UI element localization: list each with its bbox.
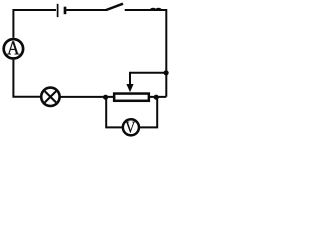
lamp L1 circle — [41, 88, 59, 106]
lamp L1 cross — [45, 91, 56, 102]
wire voltmeter right branch: from voltmeter right up to right junction — [140, 98, 158, 127]
voltmeter V1 letter V — [125, 122, 135, 133]
junction dot right of rheostat — [154, 95, 159, 100]
wire lamp to rheostat left terminal — [60, 96, 114, 98]
wire left side below ammeter down to bottom-left corner and right to lamp — [13, 60, 41, 97]
voltmeter V1 circle — [123, 119, 139, 135]
battery B1 short thick plate — [64, 7, 67, 15]
ammeter A1 circle — [4, 39, 23, 58]
wire switch to top-right corner, down right side — [125, 10, 167, 97]
rheostat wiper arrowhead — [126, 84, 133, 92]
small bumps on top wire — [150, 9, 161, 10]
wire top-left: battery left plate to top-left corner down to ammeter top — [13, 10, 56, 38]
battery B1 long plate — [57, 4, 59, 17]
wire voltmeter left branch: down from left junction, right to voltmeter — [106, 98, 122, 127]
rheostat R1 body — [114, 94, 149, 101]
junction dot left of rheostat — [103, 95, 108, 100]
switch S1 blade — [106, 4, 123, 10]
wire wiper branch: from right wire left to corner then down to arrow — [130, 73, 166, 85]
wire rheostat right terminal to bottom-right corner — [150, 96, 167, 98]
wire battery to switch pivot — [66, 9, 107, 11]
junction dot on right wire at wiper branch — [164, 70, 169, 75]
ammeter A1 letter A — [7, 41, 19, 54]
